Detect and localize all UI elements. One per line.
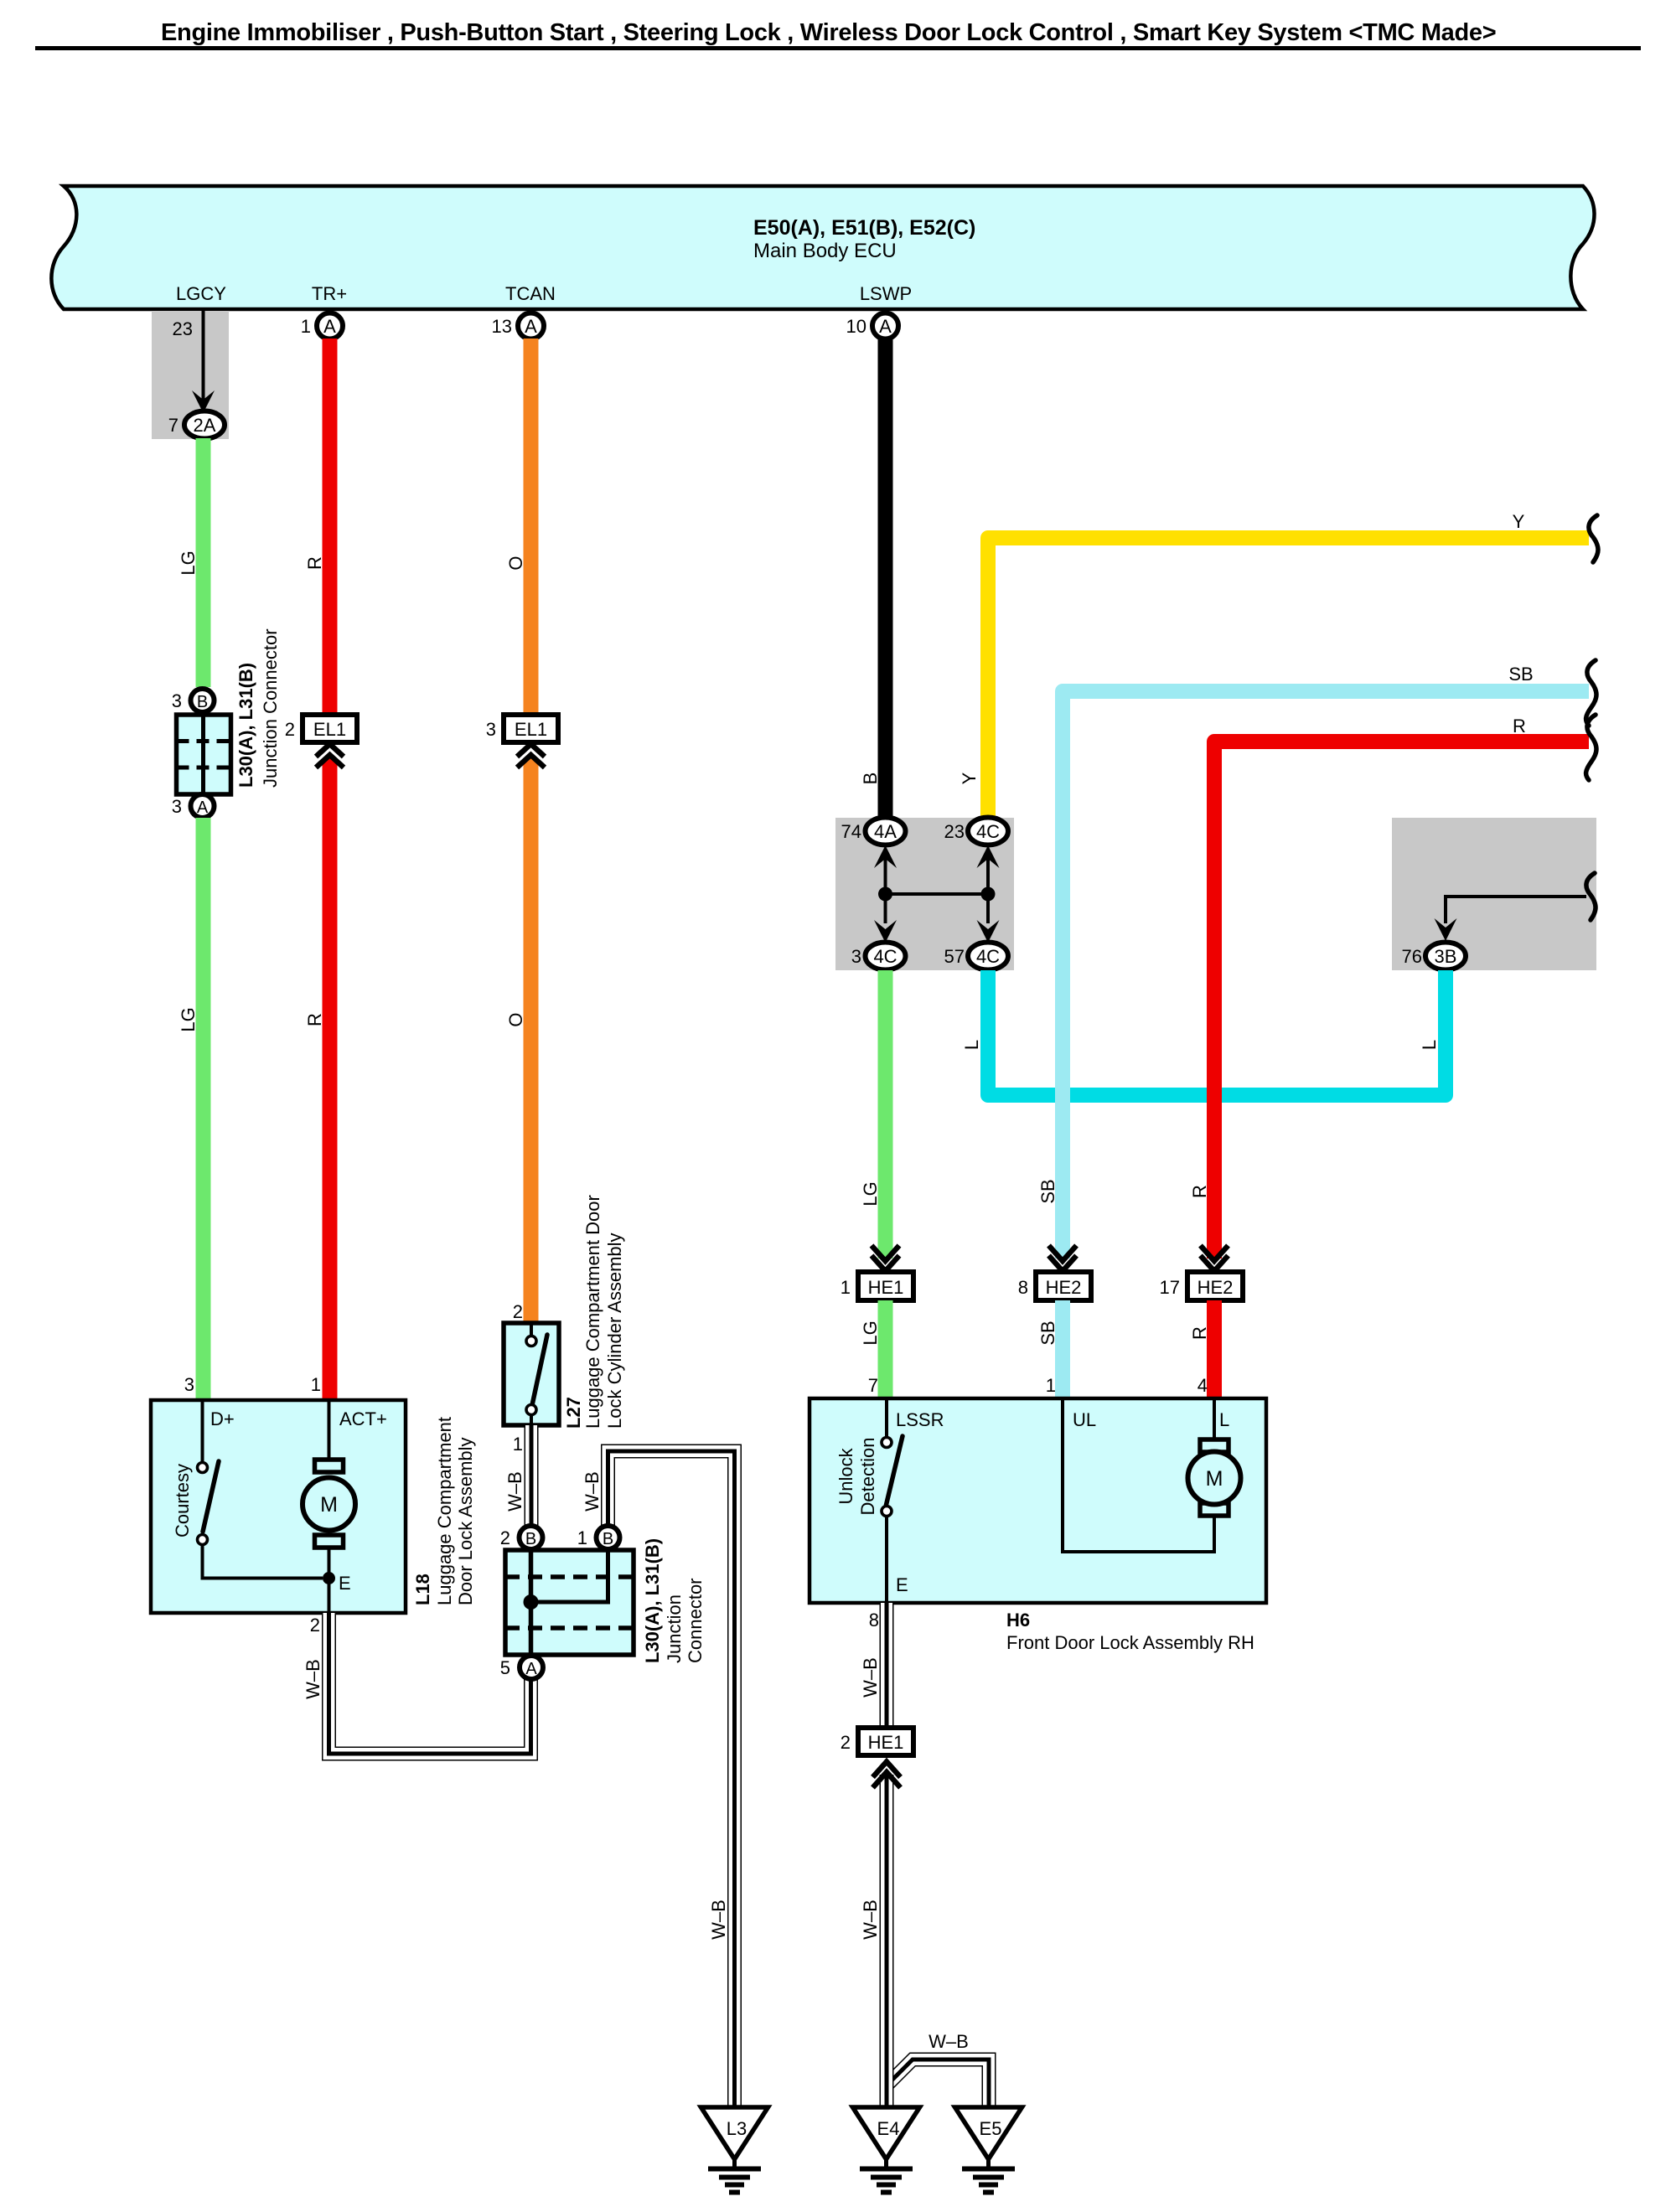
svg-text:W–B: W–B (708, 1899, 729, 1940)
junction connector pin 3(A) (191, 794, 215, 818)
tear mark at wire R (1586, 715, 1596, 780)
svg-text:4A: 4A (874, 821, 897, 842)
svg-text:HE1: HE1 (868, 1277, 904, 1298)
svg-text:A: A (323, 316, 336, 337)
svg-text:R: R (1189, 1185, 1210, 1198)
wire LG lower to L18 (196, 818, 211, 1400)
svg-text:B: B (860, 773, 881, 785)
svg-text:L: L (1219, 1409, 1229, 1430)
wire B (LSWP) (878, 339, 893, 819)
svg-text:ACT+: ACT+ (339, 1408, 387, 1429)
junction connector 2 body (505, 1550, 634, 1655)
svg-text:4C: 4C (976, 946, 1000, 967)
unlock detection switch (882, 1398, 903, 1603)
svg-text:Luggage Compartment Door: Luggage Compartment Door (582, 1195, 603, 1429)
connector HE2 pin 8 with chevrons (1049, 1246, 1077, 1262)
svg-text:R: R (1189, 1326, 1210, 1340)
svg-text:2: 2 (285, 719, 295, 740)
svg-text:HE1: HE1 (868, 1732, 904, 1753)
svg-text:23: 23 (173, 318, 193, 339)
svg-text:A: A (197, 798, 209, 817)
svg-text:8: 8 (869, 1610, 879, 1631)
svg-text:L27: L27 (563, 1397, 584, 1429)
wire LG upper (LGCY) (196, 438, 211, 687)
tear mark at 3B wire (1586, 873, 1596, 920)
svg-text:Courtesy: Courtesy (172, 1464, 193, 1538)
svg-text:76: 76 (1402, 946, 1422, 967)
wire W-B from junction connector pin 1(B) to ground L3 (608, 1451, 735, 2107)
wire LGCY pin 23 to connector 2A (202, 311, 205, 401)
connector EL1 pin 2 (303, 715, 357, 742)
svg-text:W–B: W–B (860, 1657, 881, 1698)
svg-text:E5: E5 (980, 2118, 1002, 2139)
motor M of L18 (328, 1400, 331, 1462)
svg-text:7: 7 (168, 415, 178, 436)
svg-text:Unlock: Unlock (835, 1447, 856, 1504)
svg-text:A: A (525, 316, 537, 337)
svg-text:Front Door Lock Assembly RH: Front Door Lock Assembly RH (1006, 1632, 1254, 1653)
connector HE1 pin 2 with chevrons (858, 1728, 913, 1755)
connector 3B pin 76 (1425, 943, 1466, 970)
svg-text:O: O (505, 1012, 526, 1026)
svg-text:1: 1 (1046, 1375, 1056, 1396)
svg-text:W–B: W–B (504, 1471, 525, 1512)
svg-text:EL1: EL1 (515, 719, 547, 740)
svg-text:R: R (1513, 716, 1526, 736)
svg-text:LGCY: LGCY (176, 283, 226, 304)
svg-text:H6: H6 (1006, 1610, 1030, 1631)
ground E5 (955, 2107, 1022, 2193)
svg-text:E50(A), E51(B), E52(C): E50(A), E51(B), E52(C) (753, 216, 975, 240)
internal link wires with arrows (874, 845, 1000, 943)
wire pin4 to motor (1213, 1398, 1216, 1443)
svg-text:TCAN: TCAN (505, 283, 556, 304)
svg-text:E: E (896, 1574, 908, 1595)
svg-text:10: 10 (846, 316, 866, 337)
svg-text:B: B (197, 693, 208, 711)
wire R right from tear down to H6 (1214, 742, 1589, 1258)
svg-text:EL1: EL1 (313, 719, 346, 740)
gray harness block 4A/4C (835, 818, 1014, 970)
svg-text:3: 3 (172, 796, 182, 817)
connector 4A pin 74 (866, 818, 906, 845)
svg-text:2A: 2A (194, 415, 216, 436)
svg-text:Engine Immobiliser , Push-Butt: Engine Immobiliser , Push-Button Start ,… (161, 19, 1496, 46)
svg-text:74: 74 (841, 821, 861, 842)
svg-text:HE2: HE2 (1046, 1277, 1082, 1298)
svg-text:3: 3 (486, 719, 496, 740)
svg-text:L30(A), L31(B): L30(A), L31(B) (642, 1538, 663, 1663)
svg-text:Luggage Compartment: Luggage Compartment (434, 1417, 455, 1605)
svg-text:D+: D+ (210, 1408, 235, 1429)
svg-text:UL: UL (1073, 1409, 1096, 1430)
svg-text:A: A (525, 1660, 537, 1678)
svg-text:13: 13 (492, 316, 512, 337)
svg-text:2: 2 (500, 1527, 510, 1548)
svg-text:LG: LG (860, 1181, 881, 1206)
svg-text:1: 1 (841, 1277, 851, 1298)
svg-text:4C: 4C (976, 821, 1000, 842)
junction connector 2 pin 5(A) (520, 1656, 543, 1679)
wire SB from right tear down to H6 (1063, 691, 1589, 1258)
svg-text:LSWP: LSWP (860, 283, 912, 304)
svg-text:3: 3 (851, 946, 861, 967)
svg-text:2: 2 (513, 1301, 523, 1322)
svg-text:Lock Cylinder Assembly: Lock Cylinder Assembly (604, 1233, 625, 1429)
svg-text:Connector: Connector (685, 1578, 706, 1663)
wire R HE2 to H6 pin 4 (1207, 1300, 1222, 1398)
svg-text:5: 5 (500, 1657, 510, 1678)
tear mark at wire Y (1589, 515, 1598, 562)
wire R lower to L18 (323, 758, 338, 1400)
connector 2A pin 7 (184, 411, 225, 439)
svg-text:R: R (304, 1013, 325, 1026)
svg-text:L18: L18 (412, 1574, 433, 1605)
svg-text:LSSR: LSSR (896, 1409, 944, 1430)
svg-text:1: 1 (577, 1527, 587, 1548)
svg-text:L3: L3 (727, 2118, 747, 2139)
svg-text:Main Body ECU: Main Body ECU (753, 240, 897, 262)
svg-text:M: M (1206, 1467, 1223, 1491)
svg-text:B: B (603, 1530, 613, 1548)
wire Y from ECU area to right tear (988, 538, 1589, 819)
junction connector J/C1 body (177, 715, 231, 794)
pin circle A of TCAN pin 13 (518, 313, 544, 339)
svg-text:8: 8 (1018, 1277, 1028, 1298)
motor M of H6 (1188, 1439, 1241, 1516)
svg-text:SB: SB (1508, 664, 1533, 685)
wire R upper (TR+) (323, 339, 338, 715)
svg-text:O: O (505, 556, 526, 570)
svg-text:3B: 3B (1435, 946, 1457, 967)
svg-text:W–B: W–B (929, 2031, 969, 2052)
pin circle A of TR+ pin 1 (317, 313, 343, 339)
ECU E50(A) E51(B) E52(C) Main Body ECU band (51, 186, 1594, 309)
courtesy switch (198, 1400, 323, 1579)
svg-text:W–B: W–B (582, 1471, 603, 1512)
svg-text:E4: E4 (877, 2118, 900, 2139)
gray harness block 3B (1392, 818, 1596, 970)
wire O upper (TCAN) (524, 339, 539, 715)
junction connector 2 pins B/B (520, 1526, 543, 1549)
title underline (35, 46, 1641, 50)
svg-text:M: M (320, 1493, 338, 1517)
svg-text:HE2: HE2 (1198, 1277, 1234, 1298)
svg-text:SB: SB (1037, 1320, 1058, 1345)
wire SB HE2 to H6 pin 1 (1055, 1300, 1070, 1398)
junction connector L30(A),L31(B) pin 3(B) (191, 689, 215, 712)
connector 4C pin 57 (968, 943, 1008, 970)
UL net wire inside H6 (1063, 1398, 1214, 1552)
svg-text:1: 1 (311, 1374, 321, 1395)
svg-text:3: 3 (172, 690, 182, 711)
wire L (cyan) from 4C-57 to 3B (988, 970, 1446, 1095)
connector 4C pin 23 (968, 818, 1008, 845)
svg-text:7: 7 (868, 1375, 878, 1396)
svg-text:SB: SB (1037, 1179, 1058, 1203)
svg-text:Y: Y (1513, 511, 1525, 532)
connector 4C pin 3 (866, 943, 906, 970)
connector HE2 pin 17 with chevrons (1201, 1246, 1229, 1262)
svg-text:E: E (339, 1573, 351, 1594)
gray harness block at LGCY pin 23 (152, 311, 229, 439)
wire LG HE1 to H6 pin 7 (878, 1300, 893, 1398)
svg-text:2: 2 (310, 1615, 320, 1636)
ground L3 (701, 2107, 768, 2193)
wire LG from 4C-3 down to HE1 (878, 970, 893, 1258)
svg-text:LG: LG (860, 1320, 881, 1345)
svg-text:57: 57 (944, 946, 965, 967)
svg-text:Junction: Junction (664, 1594, 685, 1663)
svg-text:1: 1 (301, 316, 311, 337)
svg-text:Junction Connector: Junction Connector (260, 628, 281, 788)
wire W-B branch to ground E5 (887, 2060, 989, 2107)
svg-text:L30(A), L31(B): L30(A), L31(B) (235, 663, 256, 788)
svg-text:L: L (961, 1040, 982, 1050)
pin circle A of LSWP pin 10 (872, 313, 898, 339)
svg-text:Door Lock Assembly: Door Lock Assembly (455, 1437, 476, 1605)
svg-text:1: 1 (513, 1434, 523, 1455)
svg-text:LG: LG (178, 1007, 199, 1031)
svg-text:23: 23 (944, 821, 965, 842)
svg-text:Y: Y (959, 772, 980, 784)
svg-text:B: B (525, 1530, 536, 1548)
connector HE1 pin 1 with chevrons (872, 1246, 899, 1262)
svg-text:4: 4 (1198, 1375, 1208, 1396)
H6 Front Door Lock Assembly RH box (810, 1398, 1266, 1603)
svg-text:W–B: W–B (303, 1659, 323, 1699)
svg-text:Detection: Detection (857, 1438, 878, 1516)
ground E4 (853, 2107, 920, 2193)
connector EL1 pin 3 (504, 715, 558, 742)
wire O lower to L27 (524, 758, 539, 1323)
svg-text:L: L (1419, 1040, 1440, 1050)
svg-text:LG: LG (178, 550, 199, 575)
svg-text:TR+: TR+ (312, 283, 347, 304)
svg-text:R: R (304, 556, 325, 570)
svg-text:3: 3 (184, 1374, 194, 1395)
wire to connector 3B from tear (1446, 897, 1586, 923)
svg-text:A: A (879, 316, 892, 337)
tear mark at wire SB (1586, 660, 1596, 726)
svg-text:W–B: W–B (860, 1899, 881, 1940)
svg-text:2: 2 (841, 1732, 851, 1753)
svg-text:4C: 4C (873, 946, 897, 967)
wire W-B from HE1 to ground E4 (880, 1775, 894, 2107)
svg-text:17: 17 (1160, 1277, 1180, 1298)
node E of L18 (328, 1548, 331, 1613)
